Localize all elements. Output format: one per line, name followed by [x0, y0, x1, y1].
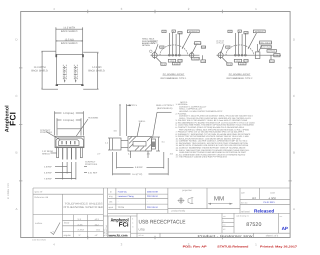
svg-text:X.XXX: X.XXX: [78, 229, 85, 232]
svg-text:CAD NO 87520: CAD NO 87520: [32, 239, 47, 242]
svg-text:POSITION 4: POSITION 4: [85, 163, 98, 166]
svg-text:13.9(max): 13.9(max): [63, 119, 74, 122]
svg-text:9.9 REF: 9.9 REF: [135, 166, 144, 169]
svg-text:⌀0.92±0.05: ⌀0.92±0.05: [255, 30, 264, 33]
svg-text:BACK SHIELD: BACK SHIELD: [31, 70, 48, 73]
svg-text:17. THE PRODUCT CAN BE USED FO: 17. THE PRODUCT CAN BE USED FOR PYP PROC…: [176, 156, 228, 159]
svg-text:BACK SHIELD: BACK SHIELD: [88, 70, 105, 73]
svg-text:13.5 NO: 13.5 NO: [65, 38, 74, 41]
svg-text:4.000: 4.000: [268, 197, 276, 201]
svg-text:±3°: ±3°: [95, 234, 98, 237]
svg-text:BACK SHIELD: BACK SHIELD: [61, 30, 78, 33]
svg-text:0.38: 0.38: [178, 32, 181, 35]
svg-text:cad drawing no: cad drawing no: [236, 215, 249, 218]
svg-text:1.14: 1.14: [270, 60, 273, 63]
svg-text:87520: 87520: [246, 222, 261, 228]
svg-text:(2 PLCS): (2 PLCS): [151, 42, 158, 45]
svg-text:2.71: 2.71: [178, 60, 181, 63]
svg-text:STATUS:Released: STATUS:Released: [217, 246, 248, 249]
svg-text:OTHERWISE SPECIFIED: OTHERWISE SPECIFIED: [64, 206, 104, 209]
svg-text:CN-07-0921: CN-07-0921: [263, 201, 275, 204]
svg-text:RECOMMENDED TYPE 1: RECOMMENDED TYPE 1: [161, 77, 188, 80]
svg-text:X°: X°: [79, 234, 81, 237]
svg-text:⌀1.84±.05: ⌀1.84±.05: [194, 42, 202, 45]
svg-text:Product - Customer Drw: Product - Customer Drw: [198, 234, 254, 238]
svg-text:SHELL: SHELL: [139, 120, 147, 123]
svg-text:product family: product family: [172, 210, 187, 213]
svg-text:14.5(max): 14.5(max): [63, 112, 74, 115]
svg-text:USB: USB: [139, 228, 145, 232]
svg-text:OPTION: OPTION: [142, 44, 150, 47]
svg-text:projection: projection: [182, 189, 192, 192]
svg-text:spec ref: spec ref: [35, 190, 43, 193]
svg-text:PDS: Rev AP: PDS: Rev AP: [183, 246, 207, 249]
svg-text:(BACKSHIELD): (BACKSHIELD): [157, 107, 173, 110]
svg-text:ecn no: ecn no: [241, 201, 248, 204]
svg-text:1.0×2.5 SLOT: 1.0×2.5 SLOT: [261, 46, 272, 49]
svg-text:TO TB: TO TB: [118, 206, 125, 209]
svg-text:linear: linear: [64, 222, 70, 225]
svg-text:B: B: [293, 151, 295, 155]
svg-text:0.75±0.05: 0.75±0.05: [192, 57, 200, 60]
svg-text:Frank Wu: Frank Wu: [118, 191, 128, 194]
svg-text:NOTE 5: NOTE 5: [129, 104, 138, 107]
svg-text:A: A: [293, 207, 295, 211]
svg-text:3.5: 3.5: [227, 46, 229, 49]
svg-text:16.1(TYP): 16.1(TYP): [132, 173, 142, 176]
svg-text:6.41 REF: 6.41 REF: [88, 171, 98, 174]
svg-text:4.5 REF: 4.5 REF: [44, 171, 53, 174]
svg-text:2.71: 2.71: [244, 60, 247, 63]
svg-text:SHIELD: SHIELD: [42, 153, 50, 156]
svg-text:SHELL OPTION 2: SHELL OPTION 2: [156, 104, 174, 107]
svg-text:POSITION 1: POSITION 1: [40, 131, 53, 134]
svg-text:1.2: 1.2: [163, 30, 165, 33]
svg-text:MM: MM: [214, 195, 224, 202]
svg-text:1.2: 1.2: [229, 30, 231, 33]
svg-text:(8.38): (8.38): [240, 63, 245, 66]
svg-text:2007-09-10: 2007-09-10: [147, 206, 158, 209]
svg-text:13.14: 13.14: [170, 60, 174, 63]
svg-text:sheet 1 of 2: sheet 1 of 2: [266, 234, 279, 237]
svg-text:(8.38): (8.38): [174, 63, 179, 66]
svg-text:scale: scale: [270, 192, 276, 195]
svg-text:2005-04-08: 2005-04-08: [147, 191, 158, 194]
svg-text:dr: dr: [110, 191, 112, 194]
svg-text:USB RECECPTACLE: USB RECECPTACLE: [139, 219, 186, 225]
svg-text:A: A: [15, 207, 17, 211]
svg-text:13.14: 13.14: [236, 60, 240, 63]
svg-text:BACK SHIELD: BACK SHIELD: [61, 42, 78, 45]
svg-text:(1.16): (1.16): [201, 46, 206, 49]
svg-text:B: B: [15, 151, 17, 155]
svg-text:(2.3): (2.3): [162, 63, 166, 66]
svg-text:(2.3): (2.3): [228, 63, 232, 66]
svg-text:surface: surface: [35, 222, 43, 225]
svg-text:(2 PLCS): (2 PLCS): [268, 50, 275, 53]
svg-text:2.5 REF: 2.5 REF: [44, 165, 53, 168]
svg-text:14.3 WITH: 14.3 WITH: [63, 27, 75, 30]
svg-text:RECOMMENDED TYPE 2: RECOMMENDED TYPE 2: [227, 77, 254, 80]
svg-text:AP: AP: [282, 226, 288, 231]
svg-text:X.XX: X.XX: [78, 223, 84, 226]
svg-text:angular: angular: [64, 234, 72, 237]
svg-text:rev: rev: [280, 215, 283, 218]
svg-text:Released: Released: [254, 209, 274, 214]
svg-text:0.38: 0.38: [244, 32, 247, 35]
svg-text:2007-09-10: 2007-09-10: [147, 195, 158, 198]
svg-text:HOUSING: HOUSING: [88, 117, 99, 120]
svg-text:SHELL TAB ⌀2.5: SHELL TAB ⌀2.5: [259, 41, 272, 44]
svg-text:7.0 REF: 7.0 REF: [44, 177, 53, 180]
svg-text:rev: rev: [223, 225, 226, 227]
svg-text:1.14: 1.14: [202, 60, 205, 63]
svg-text:2: 2: [223, 219, 224, 222]
svg-text:Printed: May 26,2017: Printed: May 26,2017: [260, 246, 298, 249]
svg-text:rel level: rel level: [241, 210, 250, 213]
svg-text:X.X: X.X: [78, 218, 82, 221]
svg-text:7.2: 7.2: [276, 54, 278, 57]
svg-text:ref no: ref no: [139, 234, 145, 237]
svg-text:FCi: FCi: [119, 222, 129, 229]
svg-text:(2 PLCS): (2 PLCS): [217, 42, 224, 45]
svg-text:⌀0.92±0.05: ⌀0.92±0.05: [189, 30, 198, 33]
svg-text:www.fci.com: www.fci.com: [108, 233, 128, 237]
svg-text:Reference std: Reference std: [35, 196, 49, 199]
svg-text:© 2006 FCI: © 2006 FCI: [7, 183, 10, 199]
svg-text:FCI: FCI: [9, 112, 18, 126]
svg-text:3.5: 3.5: [161, 46, 163, 49]
svg-text:A4: A4: [252, 196, 256, 200]
svg-text:Lawrence Chang: Lawrence Chang: [118, 195, 135, 198]
